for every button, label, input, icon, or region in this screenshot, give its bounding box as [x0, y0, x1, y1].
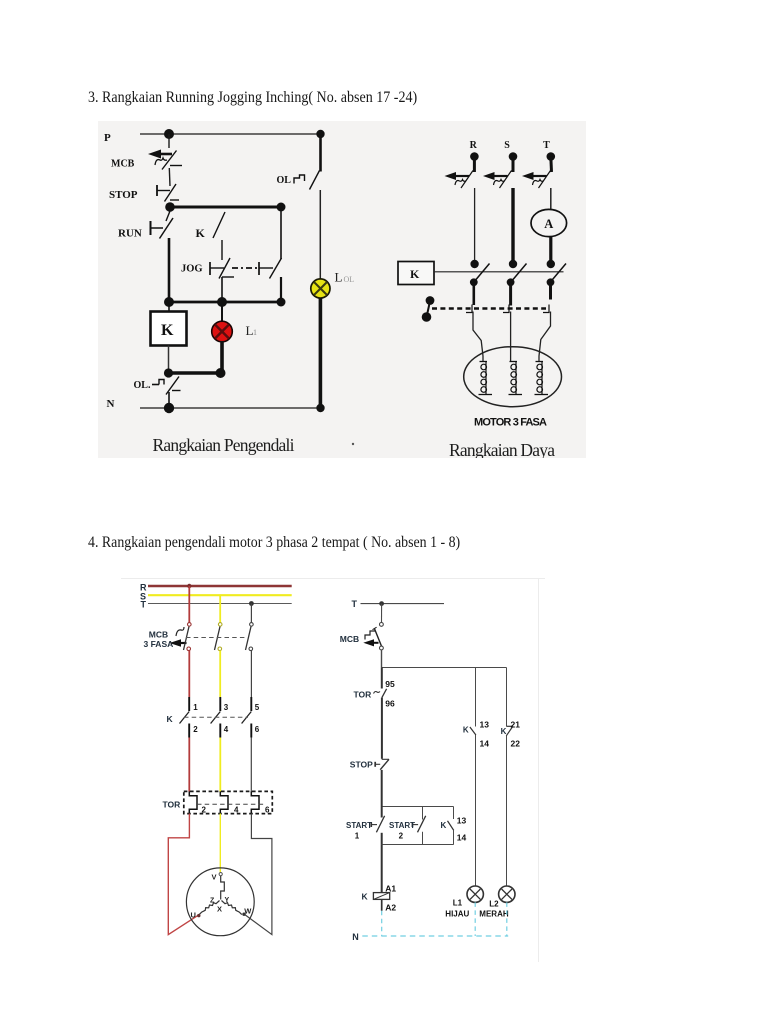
wire start2 riser — [422, 807, 424, 820]
wire T ctrl — [361, 603, 445, 605]
label MCB ctrl — [340, 634, 359, 644]
svg-text:K: K — [501, 727, 507, 736]
svg-text:K: K — [410, 267, 420, 281]
svg-text:K: K — [167, 714, 174, 724]
svg-text:STOP: STOP — [109, 189, 138, 201]
pushbutton STOP — [157, 184, 179, 202]
wire phase P top — [140, 133, 321, 135]
svg-text:L: L — [335, 270, 343, 285]
contact main R — [474, 264, 490, 283]
wire S stub — [512, 157, 515, 173]
svg-text:4: 4 — [234, 806, 239, 815]
svg-text:OL: OL — [277, 175, 292, 186]
wire K coil bottom — [168, 346, 170, 374]
terminal T top — [250, 623, 254, 627]
heater tick R — [466, 305, 472, 313]
node N right — [316, 404, 324, 412]
svg-text:MCB: MCB — [149, 630, 168, 640]
wire lead U — [473, 312, 483, 362]
svg-text:K: K — [362, 892, 369, 902]
svg-text:1: 1 — [193, 703, 198, 712]
label 13 lamp1 — [480, 720, 490, 730]
wire motor lead V yellow — [219, 814, 221, 873]
label K coil — [362, 892, 369, 902]
svg-text:P: P — [104, 132, 111, 144]
label tor2 — [202, 806, 207, 815]
wire lamp2 riser upper — [506, 668, 508, 727]
wire right branch lower — [319, 298, 323, 408]
terminal V — [219, 873, 222, 876]
svg-text:1: 1 — [253, 328, 257, 337]
svg-text:RUN: RUN — [118, 228, 142, 240]
wire right branch upper — [319, 134, 322, 172]
node R mid — [470, 260, 478, 268]
wire phase R — [148, 585, 292, 588]
label aux 14 — [457, 833, 467, 843]
wire dashed lamp2 to N — [506, 902, 508, 936]
svg-text:95: 95 — [385, 679, 395, 689]
breaker MCB — [148, 150, 182, 170]
node bus middle right — [277, 298, 286, 307]
heater tick T — [543, 305, 549, 313]
breaker T — [522, 171, 551, 189]
svg-text:MOTOR 3 FASA: MOTOR 3 FASA — [474, 417, 547, 429]
label start2 2 — [399, 832, 404, 841]
label T2 — [141, 600, 147, 610]
node trip lower — [422, 312, 432, 322]
contact K pole 3 — [242, 697, 252, 738]
label TOR2 — [163, 800, 181, 810]
svg-text:2: 2 — [202, 806, 207, 815]
wire trip link — [427, 302, 430, 315]
contact K auxiliary — [213, 212, 225, 260]
wire lamp1 riser upper — [475, 668, 477, 727]
breaker pole T — [246, 627, 253, 651]
svg-text:N: N — [107, 398, 115, 410]
label MCB — [111, 159, 135, 170]
svg-text:L1: L1 — [453, 899, 463, 908]
wire drop S — [219, 595, 221, 622]
breaker R — [445, 171, 474, 189]
label S2 — [140, 592, 146, 602]
mark small dot — [352, 443, 354, 445]
wire dashed lamp1 to N — [474, 902, 476, 936]
winding arm W — [222, 901, 242, 915]
pushbutton JOG — [210, 258, 273, 279]
label pin3 — [224, 703, 229, 712]
svg-text:MCB: MCB — [340, 634, 359, 644]
wire bus lower — [169, 371, 221, 375]
label U — [191, 911, 196, 920]
linkage hook MCB2 — [176, 627, 184, 636]
wire T to TOR — [250, 738, 252, 792]
svg-text:K: K — [161, 322, 174, 339]
wire parallel top — [382, 806, 454, 808]
node T tap — [249, 601, 254, 606]
wire K coil feed — [168, 302, 170, 311]
svg-text:R: R — [470, 140, 478, 151]
node S top — [509, 152, 518, 161]
arrow MCB2 — [170, 639, 187, 647]
wire left rail below RUN — [168, 238, 171, 302]
node bus middle left — [164, 297, 174, 307]
wire lamp L1 feed — [221, 302, 223, 322]
wire T vertical upper — [550, 188, 552, 210]
label pin1 — [193, 703, 198, 712]
wire R to TOR — [188, 738, 190, 792]
svg-text:MERAH: MERAH — [479, 910, 509, 919]
label pin6 — [255, 725, 260, 734]
contact main T — [550, 264, 566, 283]
svg-text:6: 6 — [265, 806, 270, 815]
linkage dashed K2 — [184, 716, 248, 718]
label MERAH — [479, 910, 509, 919]
label MCB2 — [149, 630, 168, 640]
label 3 FASA — [144, 639, 174, 649]
diagram background — [98, 121, 586, 458]
svg-text:4: 4 — [224, 725, 229, 734]
breaker S — [483, 171, 512, 189]
wire S vertical — [511, 188, 514, 264]
node R top — [470, 152, 479, 161]
wire S to TOR — [219, 738, 221, 792]
wire dashed coil to N — [381, 911, 383, 936]
svg-text:K: K — [196, 226, 206, 240]
label K contact — [196, 226, 206, 240]
svg-text:N: N — [352, 932, 359, 942]
wire T stub — [549, 157, 553, 173]
svg-text:HIJAU: HIJAU — [445, 910, 469, 919]
svg-text:TOR: TOR — [354, 690, 372, 700]
svg-text:T: T — [543, 140, 550, 151]
svg-text:A: A — [544, 217, 553, 231]
svg-text:13: 13 — [457, 816, 467, 826]
svg-text:OL: OL — [344, 275, 355, 284]
breaker pole R — [184, 627, 191, 651]
label tor6 — [265, 806, 270, 815]
label pin2 — [193, 725, 198, 734]
wire K link — [434, 271, 564, 273]
label R2 — [140, 583, 147, 593]
wire S mid — [219, 651, 221, 697]
svg-text:3: 3 — [224, 703, 229, 712]
pushbutton START1 — [371, 806, 384, 845]
terminal U — [197, 914, 200, 917]
wire phase S — [148, 594, 292, 596]
TOR box dashed — [184, 791, 272, 813]
svg-text:OL.: OL. — [134, 380, 151, 391]
label K2 — [167, 714, 174, 724]
wire R stub — [473, 157, 476, 173]
linkage dashed MCB2 — [186, 637, 247, 639]
wire bus middle — [169, 301, 281, 304]
caption Rangkaian Daya — [449, 440, 555, 460]
wire k13 riser — [453, 807, 455, 820]
terminal S top — [218, 623, 222, 627]
terminal R top — [188, 623, 192, 627]
svg-text:1: 1 — [355, 832, 360, 841]
svg-text:V: V — [212, 873, 217, 882]
wire motor lead U red — [168, 814, 198, 935]
wire phase T — [148, 603, 292, 605]
node bus middle center — [217, 297, 227, 307]
svg-text:START: START — [389, 821, 415, 830]
lamp L1 green — [467, 886, 483, 902]
heater tick S — [503, 305, 509, 313]
label K21 K — [501, 727, 507, 736]
svg-text:A2: A2 — [385, 902, 396, 912]
wire drop T — [250, 604, 252, 623]
pushbutton START2 — [412, 816, 425, 845]
wire to coil — [381, 845, 383, 893]
label START1 — [346, 821, 372, 830]
svg-text:JOG: JOG — [181, 264, 203, 275]
winding V stub — [221, 876, 225, 900]
node R tap — [187, 584, 191, 588]
wire dashed N — [362, 935, 508, 937]
coil winding 2 — [509, 362, 523, 395]
label aux 13 — [457, 816, 467, 826]
contact K pole 2 — [211, 697, 221, 738]
contact K21-22 lamp2 — [506, 726, 513, 886]
label 95 — [385, 679, 395, 689]
node T ctrl — [379, 601, 384, 606]
node T top — [547, 152, 556, 161]
label N ctrl — [352, 932, 359, 942]
svg-text:14: 14 — [457, 833, 467, 843]
wire coil bottom — [381, 900, 383, 911]
svg-text:START: START — [346, 821, 372, 830]
label 96 — [385, 699, 395, 709]
node bus lower right — [216, 368, 226, 378]
node junction stop-bottom — [165, 202, 175, 212]
label Y — [225, 897, 230, 904]
svg-text:5: 5 — [255, 703, 260, 712]
svg-text:STOP: STOP — [350, 760, 373, 770]
wire motor lead W black — [244, 814, 272, 935]
wire bus after STOP — [170, 206, 281, 209]
linkage dashed TOR — [197, 803, 266, 805]
wire drop to MCB — [381, 604, 383, 623]
label JOG — [181, 264, 203, 275]
node N left — [164, 403, 174, 413]
svg-text:K: K — [463, 726, 469, 735]
terminal W — [242, 913, 245, 916]
svg-text:Rangkaian Pengendali: Rangkaian Pengendali — [153, 435, 295, 455]
svg-text:MCB: MCB — [111, 159, 135, 170]
node junction bus right — [277, 203, 286, 212]
contact OL lower — [152, 377, 181, 405]
wire right branch middle — [319, 190, 321, 279]
wire S heater stub — [509, 282, 512, 305]
label pin5 — [255, 703, 260, 712]
label K aux — [441, 821, 447, 830]
label A1 — [385, 883, 396, 893]
breaker pole S — [215, 627, 222, 651]
contact K pole 1 — [180, 697, 190, 738]
svg-text:22: 22 — [511, 739, 521, 749]
svg-text:96: 96 — [385, 699, 395, 709]
wire below MCB — [381, 650, 383, 667]
contact TOR ctrl — [374, 667, 387, 759]
label pin4 — [224, 725, 229, 734]
svg-text:Rangkaian Daya: Rangkaian Daya — [449, 440, 555, 458]
node junction top-left — [164, 129, 174, 139]
terminal MCB top — [380, 623, 384, 627]
ammeter A — [531, 209, 567, 236]
wire R heater stub — [472, 282, 475, 305]
wire right rail with K contact — [270, 207, 282, 302]
label tor4 — [234, 806, 239, 815]
svg-text:3 FASA: 3 FASA — [144, 639, 174, 649]
label T ctrl — [352, 599, 358, 609]
lamp LOL yellow — [311, 279, 330, 298]
wire lamp L1 bottom — [220, 341, 224, 373]
coil winding 1 — [479, 362, 493, 395]
wire branch top — [382, 667, 507, 669]
node S low — [507, 278, 515, 286]
label LOL — [335, 270, 355, 285]
label L1 — [453, 899, 463, 908]
heater element 1 — [189, 791, 197, 813]
wire T below ammeter — [549, 237, 552, 264]
node R low — [470, 278, 478, 286]
wire R mid — [188, 651, 190, 697]
label START2 — [389, 821, 415, 830]
frame border faint — [121, 578, 552, 962]
wire R vertical — [474, 188, 476, 264]
label TOR ctrl — [354, 690, 372, 700]
wire left rail between MCB and STOP — [168, 168, 171, 186]
motor circle — [186, 868, 254, 936]
breaker MCB ctrl — [363, 627, 381, 646]
svg-text:T: T — [141, 600, 147, 610]
wire neutral N — [140, 407, 321, 409]
label RUN — [118, 228, 142, 240]
label Z — [210, 898, 215, 905]
label HIJAU — [445, 910, 469, 919]
node S mid — [509, 260, 517, 268]
svg-text:T: T — [352, 599, 358, 609]
label MOTOR 3 FASA — [474, 417, 547, 429]
label 21 lamp2 — [511, 720, 521, 730]
lamp L1 red — [212, 321, 233, 342]
node T low — [547, 278, 555, 286]
label STOP ctrl — [350, 760, 373, 770]
label X — [217, 905, 222, 914]
wire left rail upper — [168, 134, 170, 148]
terminal MCB bottom — [380, 646, 384, 650]
svg-text:21: 21 — [511, 720, 521, 730]
lamp L2 red — [499, 886, 515, 902]
svg-text:6: 6 — [255, 725, 260, 734]
coil winding 3 — [535, 362, 549, 395]
label A2 — [385, 902, 396, 912]
label S — [504, 140, 510, 151]
label L1 — [246, 323, 258, 338]
svg-text:U: U — [191, 911, 196, 920]
heater element 3 — [251, 791, 259, 813]
wire trip dashed — [432, 307, 546, 310]
label P — [104, 132, 111, 144]
svg-text:S: S — [504, 140, 510, 151]
heading title 3 — [88, 89, 417, 107]
coil K box power — [398, 262, 434, 285]
coil K ctrl — [373, 893, 389, 900]
label L2 — [489, 900, 499, 909]
heading title 4 — [88, 534, 460, 552]
svg-text:W: W — [244, 907, 252, 916]
wire drop R — [188, 586, 190, 623]
label W — [244, 907, 252, 916]
contact K aux 13-14 — [448, 821, 454, 845]
node T mid — [547, 260, 555, 268]
winding arm U — [199, 901, 219, 915]
label OL lower — [134, 380, 151, 391]
svg-text:TOR: TOR — [163, 800, 181, 810]
wire parallel bottom — [382, 844, 454, 846]
wire lead W — [539, 312, 551, 362]
node bus lower left — [164, 368, 173, 377]
wire T heater stub — [549, 282, 552, 299]
contact main S — [511, 264, 527, 283]
wire lead V — [510, 312, 512, 362]
svg-text:2: 2 — [193, 725, 198, 734]
wire T mid — [250, 651, 252, 697]
node trip upper — [426, 296, 435, 305]
label R — [470, 140, 478, 151]
label K13 K — [463, 726, 469, 735]
label 14 lamp1 — [480, 739, 490, 749]
label V — [212, 873, 217, 882]
svg-text:2: 2 — [399, 832, 404, 841]
svg-text:X: X — [217, 905, 222, 914]
node junction top-right — [316, 130, 324, 138]
svg-text:13: 13 — [480, 720, 490, 730]
caption Rangkaian Pengendali — [153, 435, 295, 455]
label N — [107, 398, 115, 410]
svg-text:K: K — [441, 821, 447, 830]
label 22 lamp2 — [511, 739, 521, 749]
pushbutton STOP ctrl — [375, 759, 389, 806]
label start1 1 — [355, 832, 360, 841]
svg-text:L2: L2 — [489, 900, 499, 909]
wire JOG to bus — [221, 277, 223, 302]
contact K13-14 lamp1 — [470, 727, 476, 886]
contact OL upper — [294, 171, 320, 190]
svg-text:14: 14 — [480, 739, 490, 749]
svg-text:A1: A1 — [385, 883, 396, 893]
label STOP — [109, 189, 138, 201]
label T — [543, 140, 550, 151]
label OL upper — [277, 175, 292, 186]
heater element 2 — [220, 791, 228, 813]
coil K box — [151, 312, 187, 346]
pushbutton RUN — [151, 211, 174, 239]
motor body ellipse — [464, 347, 562, 407]
